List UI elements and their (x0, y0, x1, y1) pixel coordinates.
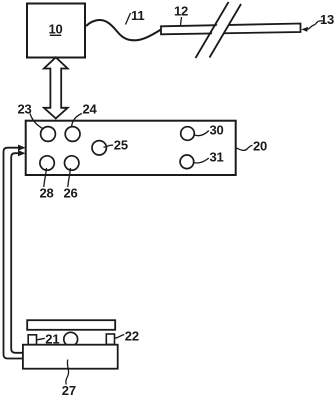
circle 28 (40, 156, 54, 170)
label 28 leader (44, 168, 47, 187)
break slash 2 (210, 4, 242, 58)
arrowhead upper (18, 145, 26, 151)
svg-text:24: 24 (83, 102, 98, 117)
circle 25 (92, 141, 106, 155)
label 23 leader (30, 114, 43, 129)
control line upper (4, 148, 23, 359)
label 25 leader (104, 145, 114, 147)
arrowhead lower (18, 150, 26, 156)
box 10 (27, 4, 85, 58)
label 21 leader (37, 338, 45, 340)
svg-text:25: 25 (114, 138, 128, 153)
label 13 leader (307, 21, 325, 29)
block 22 (106, 334, 114, 345)
svg-text:12: 12 (174, 4, 188, 19)
svg-text:31: 31 (210, 150, 224, 165)
ball (64, 332, 78, 346)
label 27 leader (66, 360, 69, 385)
label 30 leader (195, 131, 209, 136)
svg-text:30: 30 (210, 123, 224, 138)
break slash 1 (196, 2, 229, 58)
svg-text:13: 13 (320, 12, 334, 27)
circle 30 (181, 127, 195, 141)
svg-text:27: 27 (62, 383, 76, 396)
label 24 leader (72, 114, 83, 127)
svg-text:21: 21 (45, 331, 59, 346)
bar 12 (161, 24, 301, 35)
svg-text:20: 20 (253, 139, 267, 154)
label 20 leader (236, 145, 252, 150)
label 12 leader (181, 17, 182, 25)
svg-text:26: 26 (64, 186, 78, 201)
label 22 leader (115, 335, 125, 339)
block 21 (28, 335, 36, 345)
circle 26 (65, 156, 79, 170)
rect 20 (26, 121, 236, 175)
svg-text:22: 22 (125, 329, 139, 344)
base 27 (23, 345, 118, 369)
control line lower (11, 153, 23, 353)
svg-text:23: 23 (18, 102, 32, 117)
label 31 leader (194, 158, 209, 163)
plate (27, 320, 115, 330)
label 13 arrowhead (301, 27, 308, 32)
label 26 leader (68, 168, 71, 187)
svg-text:11: 11 (131, 8, 144, 23)
svg-text:28: 28 (40, 186, 54, 201)
svg-text:10: 10 (48, 22, 62, 37)
circle 24 (65, 127, 80, 142)
circle 31 (180, 155, 194, 169)
break gap (198, 2, 242, 58)
label 11 leader (126, 13, 131, 25)
cable 11 (86, 20, 161, 40)
double arrow (44, 57, 68, 118)
circle 23 (41, 127, 56, 142)
